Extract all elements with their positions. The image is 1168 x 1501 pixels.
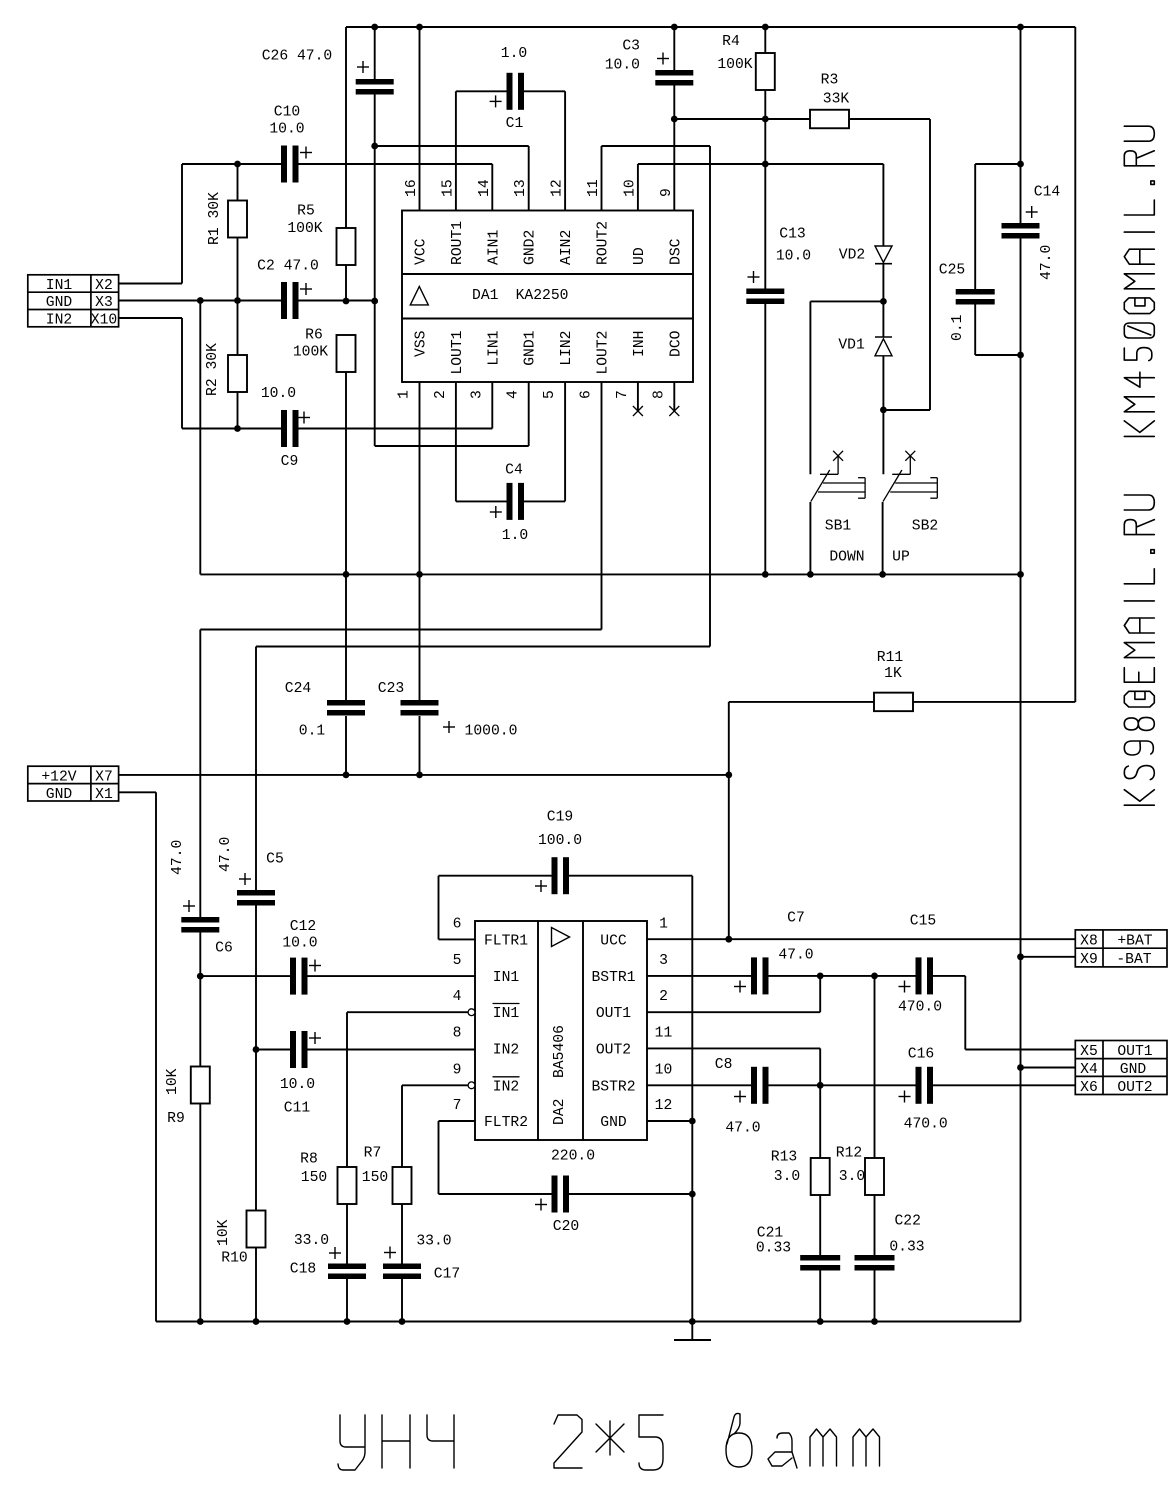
svg-text:FLTR2: FLTR2 bbox=[484, 1115, 528, 1131]
svg-text:0.33: 0.33 bbox=[889, 1240, 924, 1256]
wire GND2 to pin13 bbox=[375, 145, 529, 147]
svg-text:10K: 10K bbox=[216, 1219, 232, 1246]
wire IN2 from connector bbox=[119, 317, 182, 319]
svg-text:13: 13 bbox=[513, 179, 529, 197]
svg-text:DCO: DCO bbox=[668, 330, 684, 357]
resistor R7 bbox=[393, 1167, 412, 1204]
svg-text:C17: C17 bbox=[434, 1267, 460, 1283]
svg-text:X3: X3 bbox=[95, 295, 113, 311]
svg-text:SB1: SB1 bbox=[825, 519, 852, 535]
capacitor C18 bbox=[328, 1264, 366, 1270]
capacitor C12 bbox=[200, 975, 290, 977]
wire C4 right to pin5 bbox=[564, 382, 566, 501]
junction node DSC/R4 bbox=[671, 116, 678, 123]
svg-text:KA2250: KA2250 bbox=[516, 288, 569, 304]
svg-text:ROUT2: ROUT2 bbox=[596, 221, 612, 265]
svg-text:1: 1 bbox=[397, 390, 413, 399]
svg-text:10.0: 10.0 bbox=[605, 58, 640, 74]
svg-text:1: 1 bbox=[659, 916, 668, 932]
wire right rail to R11 bbox=[1074, 27, 1076, 702]
capacitor C13 bbox=[746, 289, 784, 295]
svg-text:FLTR1: FLTR1 bbox=[484, 933, 528, 949]
wire C19 right down to GND pin bbox=[691, 876, 693, 1322]
svg-text:C8: C8 bbox=[715, 1057, 733, 1073]
wire VCC pin16 to rail bbox=[419, 27, 421, 211]
wire R4/R3 node down to C13 bbox=[764, 119, 766, 164]
capacitor C3 bbox=[673, 27, 675, 70]
svg-text:BSTR1: BSTR1 bbox=[591, 970, 635, 986]
svg-text:UD: UD bbox=[632, 247, 648, 265]
wire C8 node to C16 bbox=[820, 1084, 915, 1086]
svg-text:LOUT2: LOUT2 bbox=[596, 331, 612, 375]
junction node R1/R2 bbox=[234, 297, 241, 304]
junction node C20/GND line bbox=[689, 1191, 696, 1198]
svg-text:47.0: 47.0 bbox=[778, 948, 813, 964]
svg-text:R1 30K: R1 30K bbox=[207, 192, 223, 245]
svg-text:3.0: 3.0 bbox=[839, 1169, 865, 1185]
svg-text:C23: C23 bbox=[378, 681, 404, 697]
wire IN2 bus to pin3 through C9 bbox=[182, 428, 281, 430]
svg-text:5: 5 bbox=[542, 390, 558, 399]
wire C19 left to FLTR1 bbox=[438, 876, 440, 940]
svg-text:C10: C10 bbox=[274, 105, 300, 121]
svg-text:IN1: IN1 bbox=[46, 278, 73, 294]
svg-text:C12: C12 bbox=[290, 919, 316, 935]
svg-text:220.0: 220.0 bbox=[551, 1149, 595, 1165]
svg-text:100K: 100K bbox=[287, 221, 322, 237]
svg-text:C25: C25 bbox=[939, 263, 965, 279]
connector X5 X4 X6 output bbox=[1075, 1041, 1167, 1095]
svg-text:C1: C1 bbox=[506, 116, 524, 132]
junction dots on top rail bbox=[371, 24, 378, 31]
svg-text:AIN2: AIN2 bbox=[559, 230, 575, 265]
svg-text:2: 2 bbox=[659, 989, 668, 1005]
svg-text:DSC: DSC bbox=[668, 238, 684, 265]
svg-text:14: 14 bbox=[477, 179, 493, 197]
svg-text:X10: X10 bbox=[91, 313, 117, 329]
svg-text:VD2: VD2 bbox=[839, 248, 865, 264]
wire R5/R6/C24 branch x=346 bbox=[345, 27, 347, 228]
diode VD1 bbox=[875, 336, 892, 338]
capacitor C26 bbox=[374, 27, 376, 79]
capacitor C24 bbox=[327, 700, 365, 706]
svg-text:R9: R9 bbox=[167, 1111, 185, 1127]
junction dots on +12V wire bbox=[343, 772, 350, 779]
connector X8 X9 battery bbox=[1075, 930, 1167, 967]
resistor R3 bbox=[674, 118, 810, 120]
svg-text:LIN2: LIN2 bbox=[559, 331, 575, 366]
svg-text:R7: R7 bbox=[364, 1146, 382, 1162]
svg-text:IN2: IN2 bbox=[46, 313, 72, 329]
svg-text:OUT1: OUT1 bbox=[596, 1006, 631, 1022]
svg-text:1.0: 1.0 bbox=[502, 528, 528, 544]
svg-text:8: 8 bbox=[651, 390, 667, 399]
svg-text:R6: R6 bbox=[305, 328, 323, 344]
svg-text:4: 4 bbox=[506, 390, 522, 399]
svg-text:GND: GND bbox=[600, 1115, 627, 1131]
svg-text:DA2: DA2 bbox=[552, 1099, 568, 1125]
svg-text:5: 5 bbox=[453, 953, 462, 969]
resistor R2 bbox=[237, 301, 239, 356]
resistor R9 bbox=[199, 976, 201, 1066]
svg-text:100.0: 100.0 bbox=[538, 833, 582, 849]
svg-text:R3: R3 bbox=[821, 73, 839, 89]
svg-text:0.1: 0.1 bbox=[299, 724, 326, 740]
capacitor C19 bbox=[439, 875, 552, 877]
svg-text:SB2: SB2 bbox=[912, 519, 938, 535]
svg-text:R4: R4 bbox=[722, 34, 740, 50]
wire VD2 to VD1 node bbox=[882, 264, 884, 337]
svg-text:3: 3 bbox=[659, 953, 668, 969]
svg-text:15: 15 bbox=[440, 179, 456, 197]
svg-text:R8: R8 bbox=[300, 1152, 318, 1168]
wire C1 right to pin12 bbox=[564, 91, 566, 210]
junction node C5/C11/R10 bbox=[253, 1046, 260, 1053]
svg-text:R10: R10 bbox=[221, 1251, 247, 1267]
wire C6 to C12 node bbox=[199, 932, 201, 977]
wire C15 to X5 bbox=[933, 975, 965, 977]
svg-text:C14: C14 bbox=[1034, 185, 1061, 201]
wire pin6 LOUT2 down to C6 route bbox=[601, 382, 603, 630]
capacitor C1 bbox=[456, 90, 507, 92]
capacitor C25 branch bbox=[975, 163, 1020, 165]
wire C7 node to C15 bbox=[820, 975, 915, 977]
junction node C8/OUT2/R13 bbox=[817, 1082, 824, 1089]
capacitor C11 bbox=[256, 1049, 290, 1051]
svg-text:1000.0: 1000.0 bbox=[465, 724, 518, 740]
svg-text:C6: C6 bbox=[215, 941, 233, 957]
capacitor C5 bbox=[237, 890, 275, 896]
svg-text:+BAT: +BAT bbox=[1117, 934, 1152, 950]
svg-text:OUT1: OUT1 bbox=[1117, 1044, 1152, 1060]
svg-text:VD1: VD1 bbox=[838, 338, 865, 354]
wire +12V distribution bbox=[119, 774, 729, 776]
wire UCC to X8 bbox=[647, 938, 1075, 940]
svg-text:6: 6 bbox=[579, 390, 595, 399]
wire ROUT2 to C5 route bbox=[256, 646, 710, 648]
svg-text:R12: R12 bbox=[836, 1146, 862, 1162]
junction node UCC/R11 bbox=[725, 936, 732, 943]
capacitor C21 bbox=[800, 1255, 840, 1261]
svg-text:C26 47.0: C26 47.0 bbox=[262, 49, 333, 65]
wire R12 branch bbox=[874, 976, 876, 1158]
junction node C7/OUT1 bbox=[817, 973, 824, 980]
svg-text:VCC: VCC bbox=[414, 238, 430, 265]
svg-text:C11: C11 bbox=[284, 1101, 311, 1117]
svg-text:10: 10 bbox=[622, 179, 638, 197]
junction node R5/R6 midpoint bbox=[343, 298, 350, 305]
capacitor C10 bbox=[281, 146, 287, 183]
svg-text:BSTR2: BSTR2 bbox=[591, 1079, 635, 1095]
junction node R3 wire bbox=[762, 116, 769, 123]
svg-text:9: 9 bbox=[453, 1062, 462, 1078]
svg-text:2: 2 bbox=[433, 390, 449, 399]
svg-text:33.0: 33.0 bbox=[416, 1234, 451, 1250]
svg-text:0.1: 0.1 bbox=[950, 314, 966, 341]
watermark KS98 bbox=[1124, 495, 1154, 805]
svg-text:16: 16 bbox=[404, 179, 420, 197]
svg-text:10.0: 10.0 bbox=[269, 122, 304, 138]
IC DA2 BA5406 box bbox=[475, 921, 647, 1140]
svg-text:470.0: 470.0 bbox=[904, 1117, 948, 1133]
wire C18 to bus bbox=[346, 1278, 348, 1322]
pushbutton SB1 DOWN bbox=[833, 451, 843, 461]
svg-text:8: 8 bbox=[453, 1025, 462, 1041]
capacitor C17 bbox=[383, 1264, 421, 1270]
wire R3 right branch down bbox=[929, 119, 931, 410]
svg-text:33.0: 33.0 bbox=[294, 1233, 329, 1249]
wire C17 to bus bbox=[401, 1278, 403, 1322]
svg-text:R11: R11 bbox=[877, 650, 904, 666]
wire pin10 UD over to VD2 bbox=[637, 164, 639, 211]
wire C21 to bus bbox=[819, 1270, 821, 1322]
wire pin2 LOUT1 down bbox=[455, 382, 457, 501]
svg-text:C4: C4 bbox=[505, 463, 523, 479]
svg-text:LIN1: LIN1 bbox=[486, 330, 502, 365]
junction node C6/C12/R9 bbox=[197, 973, 204, 980]
svg-text:47.0: 47.0 bbox=[1039, 245, 1055, 280]
wire VSS pin1 / C23 branch x=419.5 bbox=[419, 382, 421, 574]
wire IN1 from connector bbox=[119, 283, 182, 285]
DA2 inverting input circles bbox=[468, 1009, 475, 1016]
title UNCH 2x5 watt bbox=[338, 1413, 880, 1470]
wire VD1 to SB2 bbox=[882, 356, 884, 410]
svg-text:X6: X6 bbox=[1080, 1080, 1098, 1096]
svg-text:VSS: VSS bbox=[414, 330, 430, 357]
junction node between diodes bbox=[880, 298, 887, 305]
capacitor C20 bbox=[439, 1193, 552, 1195]
svg-text:IN1: IN1 bbox=[493, 1006, 520, 1022]
resistor R11 bbox=[874, 693, 913, 712]
svg-text:C22: C22 bbox=[894, 1214, 920, 1230]
capacitor C9 bbox=[281, 410, 287, 447]
svg-text:C20: C20 bbox=[553, 1219, 579, 1235]
capacitor C8 bbox=[647, 1084, 751, 1086]
wire R8 to C18 bbox=[346, 1204, 348, 1264]
junction node R1 top bbox=[234, 161, 241, 168]
capacitor C2 bbox=[281, 282, 287, 319]
svg-text:R13: R13 bbox=[771, 1150, 797, 1166]
svg-text:GND: GND bbox=[46, 295, 73, 311]
junction node GND2 wire bbox=[371, 143, 378, 150]
svg-text:+12V: +12V bbox=[41, 770, 76, 786]
svg-text:C3: C3 bbox=[622, 39, 640, 55]
svg-text:X7: X7 bbox=[95, 770, 113, 786]
svg-text:X5: X5 bbox=[1080, 1044, 1098, 1060]
svg-text:X4: X4 bbox=[1080, 1062, 1098, 1078]
svg-text:C2 47.0: C2 47.0 bbox=[257, 259, 319, 275]
svg-text:X1: X1 bbox=[95, 787, 113, 803]
wire IN1-inv to R8 bbox=[347, 1011, 468, 1013]
svg-text:R5: R5 bbox=[297, 204, 315, 220]
svg-text:10K: 10K bbox=[165, 1068, 181, 1095]
wire IN1 to C10 and pin14 bbox=[182, 163, 281, 165]
svg-text:C19: C19 bbox=[547, 810, 573, 826]
capacitor C4 bbox=[456, 500, 507, 502]
junction node VD1/R3 branch bbox=[880, 407, 887, 414]
wire diode node to SB1 bbox=[810, 300, 883, 302]
svg-text:470.0: 470.0 bbox=[898, 1000, 942, 1016]
svg-text:10.0: 10.0 bbox=[261, 386, 296, 402]
wire mid GND bus bbox=[200, 573, 1020, 575]
svg-text:ROUT1: ROUT1 bbox=[450, 221, 466, 265]
wire right battery column x=1020 bbox=[1020, 27, 1022, 223]
svg-text:X8: X8 bbox=[1080, 934, 1098, 950]
wire bottom ground bus bbox=[156, 1321, 1021, 1323]
svg-text:10: 10 bbox=[655, 1062, 673, 1078]
svg-text:10.0: 10.0 bbox=[280, 1077, 315, 1093]
svg-text:INH: INH bbox=[632, 331, 648, 357]
svg-text:UCC: UCC bbox=[600, 933, 627, 949]
svg-text:GND2: GND2 bbox=[523, 230, 539, 265]
svg-text:UP: UP bbox=[892, 550, 910, 566]
capacitor C16 bbox=[916, 1067, 922, 1104]
svg-text:C7: C7 bbox=[787, 911, 805, 927]
junction nodes on battery column bbox=[1017, 161, 1024, 168]
wire R12 to C22 bbox=[874, 1195, 876, 1255]
svg-text:150: 150 bbox=[301, 1170, 327, 1186]
wire X4 to battery column bbox=[1021, 1067, 1076, 1069]
wire GND pin12 to gnd line bbox=[647, 1120, 692, 1122]
svg-text:IN2: IN2 bbox=[493, 1079, 519, 1095]
wire C16 to X6 bbox=[933, 1084, 1075, 1086]
IC DA1 KA2250 box bbox=[402, 211, 693, 383]
pin8 DCO not connected bbox=[673, 382, 675, 411]
capacitor C7 bbox=[647, 975, 751, 977]
connector X7 X1 power bbox=[28, 766, 119, 801]
svg-text:11: 11 bbox=[655, 1025, 673, 1041]
svg-text:X9: X9 bbox=[1080, 952, 1098, 968]
resistor R4 bbox=[764, 27, 766, 53]
svg-text:7: 7 bbox=[453, 1098, 462, 1114]
connector X2 X3 X10 input bbox=[28, 275, 119, 327]
svg-text:C24: C24 bbox=[285, 681, 312, 697]
svg-text:R2 30K: R2 30K bbox=[205, 343, 221, 396]
svg-text:100K: 100K bbox=[717, 57, 752, 73]
capacitor C6 bbox=[181, 917, 219, 923]
resistor R8 bbox=[338, 1167, 357, 1204]
svg-text:GND1: GND1 bbox=[523, 330, 539, 365]
svg-text:BA5406: BA5406 bbox=[552, 1025, 568, 1078]
capacitor C22 bbox=[855, 1255, 895, 1261]
svg-text:47.0: 47.0 bbox=[170, 840, 186, 875]
wire GND/bias from connector through C2 bbox=[119, 300, 281, 302]
svg-text:C16: C16 bbox=[908, 1047, 934, 1063]
junction dots bottom bus bbox=[197, 1318, 204, 1325]
wire C22 to bus bbox=[874, 1270, 876, 1322]
wire R11 node to UCC bbox=[728, 775, 730, 939]
svg-text:12: 12 bbox=[550, 179, 566, 197]
svg-text:4: 4 bbox=[453, 989, 462, 1005]
resistor R12 bbox=[865, 1158, 884, 1195]
wire GND X1 down to bottom bus bbox=[119, 791, 156, 793]
svg-text:X2: X2 bbox=[95, 278, 113, 294]
svg-text:GND: GND bbox=[1120, 1062, 1147, 1078]
wire C1 left to pin15 bbox=[455, 91, 457, 210]
svg-text:10.0: 10.0 bbox=[776, 249, 811, 265]
svg-text:0.33: 0.33 bbox=[756, 1241, 791, 1257]
resistor R13 bbox=[811, 1158, 830, 1195]
wire R13 branch bbox=[819, 1085, 821, 1158]
svg-text:C18: C18 bbox=[290, 1262, 316, 1278]
wire R11 branch bbox=[728, 702, 730, 775]
svg-text:1K: 1K bbox=[884, 666, 902, 682]
svg-text:1.0: 1.0 bbox=[501, 46, 527, 62]
svg-text:GND: GND bbox=[46, 787, 73, 803]
capacitor C15 bbox=[916, 957, 922, 994]
svg-text:OUT2: OUT2 bbox=[1117, 1080, 1152, 1096]
junction node UD wire bbox=[762, 161, 769, 168]
junction node GND pin bbox=[689, 1118, 696, 1125]
pushbutton SB2 UP bbox=[905, 451, 915, 461]
diode VD2 bbox=[875, 246, 892, 263]
svg-text:10.0: 10.0 bbox=[282, 936, 317, 952]
wire X9 to battery column bbox=[1021, 956, 1076, 958]
svg-text:-BAT: -BAT bbox=[1116, 952, 1151, 968]
svg-text:3.0: 3.0 bbox=[774, 1169, 800, 1185]
capacitor C14 bbox=[1002, 223, 1040, 229]
wire R7 to C17 bbox=[401, 1204, 403, 1264]
wire GND1 pin4 branch bbox=[375, 445, 529, 447]
ground symbol bbox=[691, 1322, 693, 1341]
svg-text:11: 11 bbox=[586, 179, 602, 197]
wire C5 to C11 node bbox=[255, 905, 257, 1050]
svg-text:OUT2: OUT2 bbox=[596, 1042, 631, 1058]
svg-text:IN2: IN2 bbox=[493, 1042, 519, 1058]
svg-text:IN1: IN1 bbox=[493, 970, 520, 986]
svg-text:100K: 100K bbox=[293, 345, 328, 361]
junction node R2 bottom bbox=[234, 425, 241, 432]
resistor R10 bbox=[255, 1050, 257, 1211]
svg-text:150: 150 bbox=[362, 1170, 388, 1186]
svg-text:DA1: DA1 bbox=[472, 288, 499, 304]
svg-text:C21: C21 bbox=[757, 1226, 784, 1242]
svg-text:9: 9 bbox=[659, 188, 675, 197]
svg-text:33K: 33K bbox=[823, 92, 850, 108]
wire C3 to pin9 DSC bbox=[673, 85, 675, 211]
resistor R6 bbox=[337, 335, 356, 372]
svg-text:12: 12 bbox=[655, 1098, 673, 1114]
svg-text:7: 7 bbox=[615, 390, 631, 399]
capacitor C23 bbox=[401, 700, 439, 706]
wire OUT1 up bbox=[647, 1011, 820, 1013]
resistor R5 bbox=[337, 228, 356, 265]
junction dots on mid bus bbox=[343, 571, 350, 578]
wire top +BAT rail bbox=[346, 26, 1075, 28]
svg-text:C5: C5 bbox=[266, 852, 284, 868]
svg-text:47.0: 47.0 bbox=[218, 837, 234, 872]
wire OUT2 down bbox=[647, 1047, 820, 1049]
resistor R1 bbox=[237, 164, 239, 201]
wire C13 bottom to bus bbox=[764, 303, 766, 574]
svg-text:DOWN: DOWN bbox=[829, 550, 864, 566]
svg-text:C13: C13 bbox=[779, 227, 805, 243]
svg-text:LOUT1: LOUT1 bbox=[450, 330, 466, 374]
svg-text:C15: C15 bbox=[910, 914, 936, 930]
svg-text:AIN1: AIN1 bbox=[486, 230, 502, 265]
junction node X3 gnd split bbox=[197, 297, 204, 304]
junction node bias wire bbox=[371, 298, 378, 305]
wire IN2-inv to R7 bbox=[402, 1084, 468, 1086]
pin7 INH not connected bbox=[637, 382, 639, 411]
svg-text:C9: C9 bbox=[281, 454, 299, 470]
svg-text:47.0: 47.0 bbox=[725, 1121, 760, 1137]
svg-text:6: 6 bbox=[453, 916, 462, 932]
wire pin11 ROUT2 up and over bbox=[601, 146, 603, 211]
watermark KM450 bbox=[1124, 126, 1154, 436]
wire C26 bottom / GND2 branch x=374.7 bbox=[374, 94, 376, 447]
svg-text:3: 3 bbox=[469, 390, 485, 399]
